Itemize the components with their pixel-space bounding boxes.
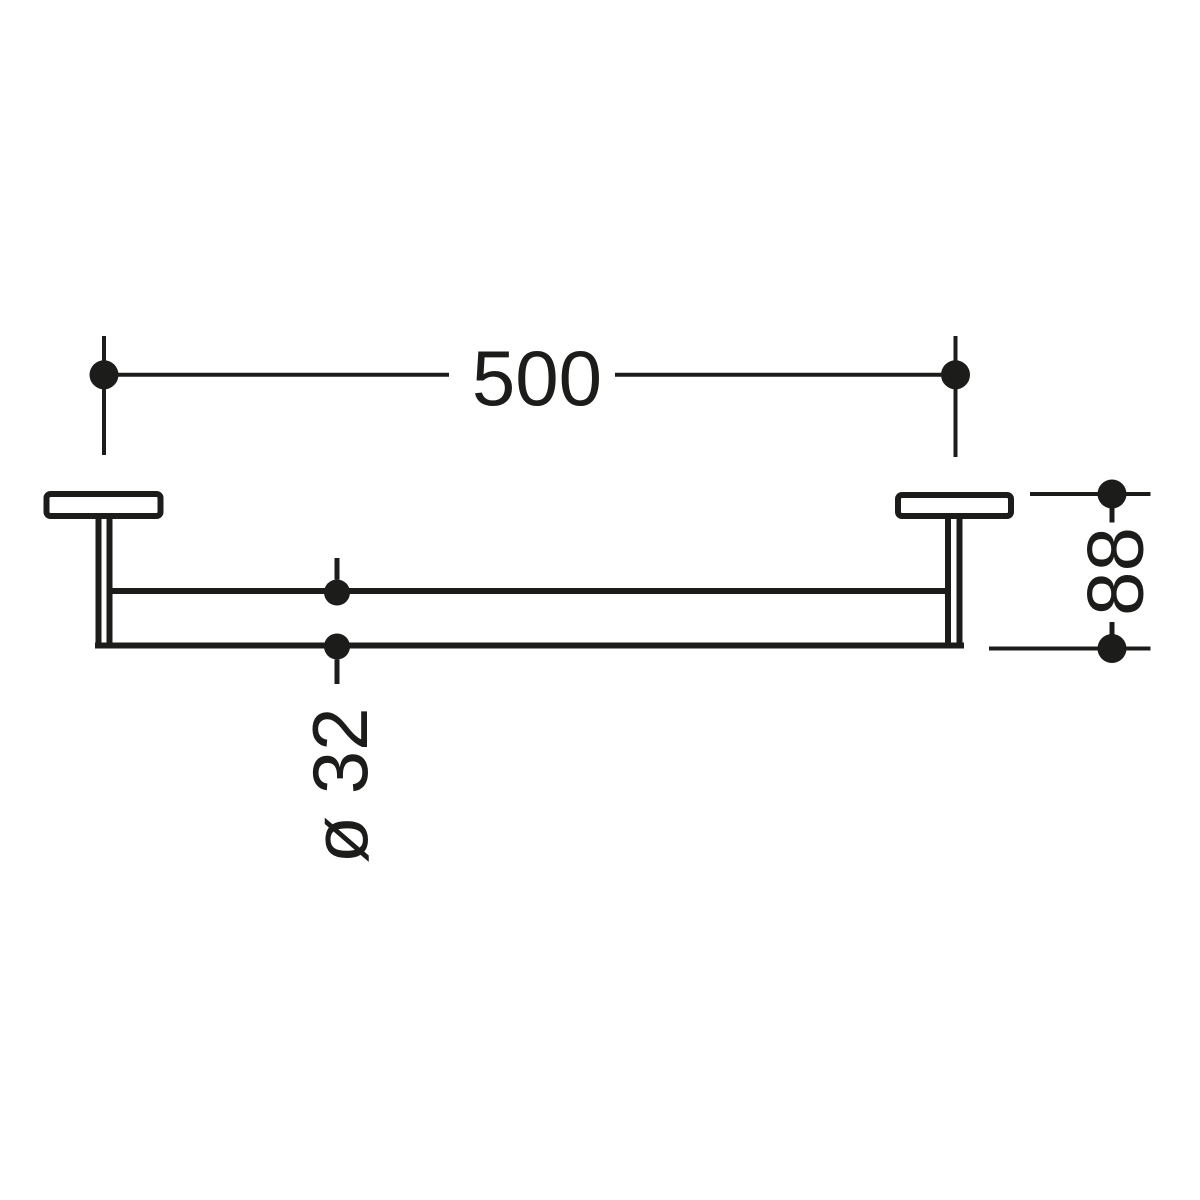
svg-text:ø 32: ø 32: [296, 707, 384, 863]
svg-text:500: 500: [472, 334, 602, 422]
svg-text:88: 88: [1071, 527, 1160, 616]
